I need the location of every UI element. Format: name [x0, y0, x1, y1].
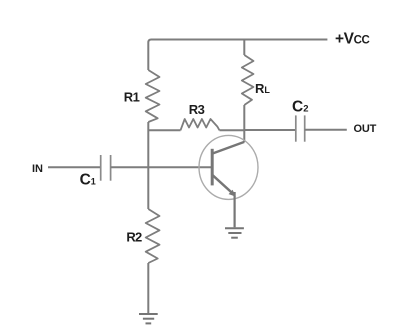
transistor Q1 base bar — [211, 149, 214, 186]
wire: node to R3 — [148, 129, 180, 131]
transistor Q1 emitter arrowhead — [229, 190, 236, 197]
wire: rail down to RL — [243, 39, 245, 56]
resistor R1 — [146, 70, 160, 122]
wire: node to C2 — [244, 129, 295, 131]
transistor Q1 emitter lead — [212, 175, 234, 195]
svg-text:R2: R2 — [126, 230, 142, 245]
capacitor C2 — [296, 115, 305, 141]
wire: R3 to collector node — [220, 129, 245, 131]
transistor Q1 circle — [199, 135, 258, 199]
ground under R2 — [139, 314, 158, 323]
svg-text:C1: C1 — [80, 172, 96, 189]
wire: emitter down to ground — [234, 192, 236, 227]
svg-text:C2: C2 — [292, 98, 309, 115]
wire: base node to transistor base — [148, 166, 212, 168]
resistor RL — [242, 55, 254, 105]
svg-text:IN: IN — [32, 163, 43, 175]
wire: R2 bottom to ground — [147, 263, 149, 313]
ground at emitter — [225, 228, 244, 238]
wire: C2 to OUT — [305, 129, 347, 131]
wire: IN lead to C1 — [48, 166, 101, 168]
svg-text:R1: R1 — [124, 90, 140, 105]
transistor Q1 collector lead — [212, 142, 244, 154]
svg-text:RL: RL — [255, 81, 270, 96]
resistor R3 — [181, 119, 220, 130]
wire: RL bottom through node down to collector bend — [243, 105, 245, 142]
svg-text:R3: R3 — [189, 102, 205, 117]
svg-text:OUT: OUT — [354, 123, 377, 135]
resistor R2 — [146, 209, 160, 263]
wire: C1 to base node — [111, 166, 149, 168]
capacitor C1 — [101, 155, 111, 181]
wire: top VCC rail — [148, 40, 327, 71]
svg-text:+VCC: +VCC — [335, 31, 369, 48]
wire: left vertical R1 bottom through base node down to R2 top — [147, 122, 149, 209]
